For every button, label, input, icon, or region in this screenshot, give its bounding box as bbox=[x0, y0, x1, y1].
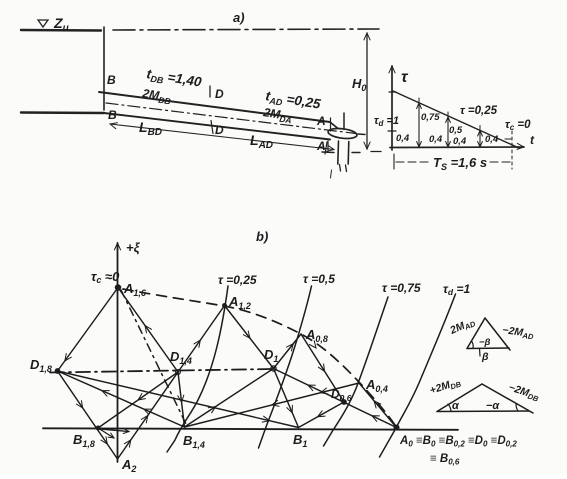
svg-text:0,4: 0,4 bbox=[396, 133, 410, 144]
svg-text:τ =0,25: τ =0,25 bbox=[218, 273, 257, 287]
svg-text:τ =0,5: τ =0,5 bbox=[303, 272, 335, 286]
svg-text:0,4: 0,4 bbox=[485, 134, 499, 145]
svg-text:τ =0,25: τ =0,25 bbox=[460, 105, 498, 117]
svg-text:−β: −β bbox=[479, 337, 491, 348]
svg-text:+ξ: +ξ bbox=[126, 240, 141, 255]
svg-text:τ =0,75: τ =0,75 bbox=[382, 281, 421, 295]
svg-text:D: D bbox=[215, 123, 224, 137]
svg-text:0,5: 0,5 bbox=[449, 125, 463, 136]
svg-text:0,4: 0,4 bbox=[453, 136, 467, 147]
svg-text:0,75: 0,75 bbox=[421, 112, 440, 123]
svg-text:τd =1: τd =1 bbox=[443, 282, 470, 297]
svg-text:A: A bbox=[316, 114, 326, 128]
svg-text:τc =0: τc =0 bbox=[505, 119, 531, 132]
svg-text:−α: −α bbox=[486, 400, 500, 412]
svg-text:α: α bbox=[452, 400, 460, 412]
svg-text:B: B bbox=[108, 108, 117, 122]
svg-text:A: A bbox=[316, 139, 326, 153]
svg-text:0,4: 0,4 bbox=[429, 134, 443, 145]
svg-text:β: β bbox=[481, 351, 489, 363]
svg-text:b): b) bbox=[256, 229, 268, 244]
svg-text:B: B bbox=[107, 73, 116, 87]
svg-text:a): a) bbox=[233, 10, 245, 25]
svg-text:τc ≈0: τc ≈0 bbox=[91, 269, 120, 285]
svg-text:D: D bbox=[215, 87, 224, 101]
svg-text:τd =1: τd =1 bbox=[374, 115, 399, 128]
